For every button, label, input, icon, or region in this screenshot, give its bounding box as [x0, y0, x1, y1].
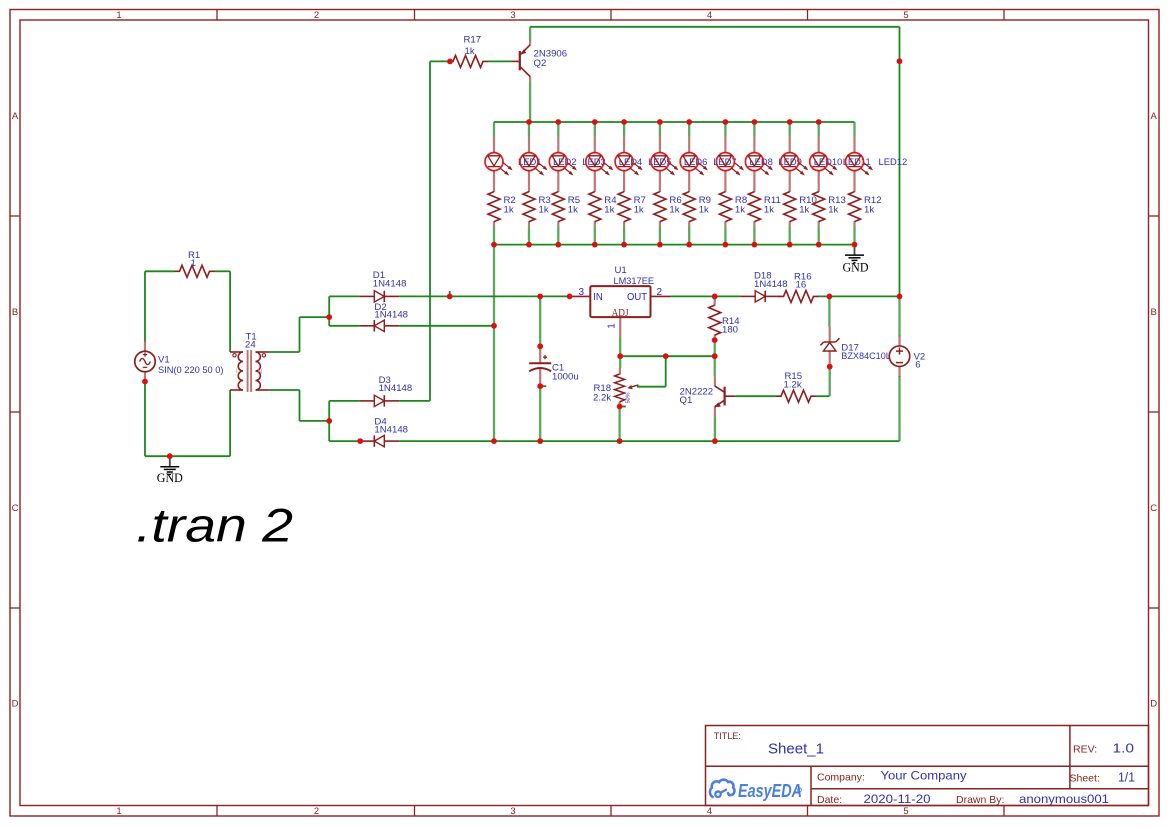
svg-text:16: 16	[796, 279, 807, 290]
svg-text:Your Company: Your Company	[881, 768, 968, 782]
svg-text:1k: 1k	[604, 205, 614, 216]
svg-text:180: 180	[722, 325, 738, 336]
svg-text:1: 1	[191, 258, 196, 269]
svg-text:B: B	[1151, 307, 1157, 318]
svg-text:1: 1	[116, 806, 121, 817]
svg-text:6: 6	[915, 359, 920, 370]
svg-text:OUT: OUT	[627, 291, 648, 303]
svg-text:GND: GND	[157, 471, 183, 485]
svg-text:ADJ: ADJ	[612, 307, 630, 319]
svg-text:B: B	[12, 307, 18, 318]
svg-text:1N4148: 1N4148	[374, 310, 408, 321]
svg-text:5: 5	[903, 806, 908, 817]
svg-text:LED12: LED12	[879, 156, 908, 167]
svg-text:GND: GND	[843, 261, 869, 275]
svg-text:V1: V1	[158, 354, 170, 365]
svg-text:1k: 1k	[735, 205, 745, 216]
svg-text:SIN(0 220 50 0): SIN(0 220 50 0)	[158, 365, 224, 376]
svg-text:1k: 1k	[465, 46, 475, 57]
svg-text:A: A	[1151, 111, 1158, 122]
svg-text:1000u: 1000u	[552, 372, 579, 383]
svg-text:LED2: LED2	[553, 156, 576, 167]
svg-text:1N4148: 1N4148	[379, 383, 413, 394]
svg-text:C: C	[12, 503, 19, 514]
svg-text:R17: R17	[464, 35, 482, 46]
svg-text:1: 1	[116, 10, 121, 21]
svg-text:2: 2	[314, 10, 319, 21]
svg-text:1k: 1k	[568, 205, 578, 216]
svg-text:N: N	[258, 369, 263, 376]
svg-text:2020-11-20: 2020-11-20	[864, 792, 931, 806]
svg-text:C: C	[1150, 503, 1157, 514]
svg-text:Sheet:: Sheet:	[1070, 773, 1100, 785]
svg-text:5: 5	[903, 10, 908, 21]
svg-text:LED6: LED6	[684, 156, 707, 167]
svg-text:1k: 1k	[799, 205, 809, 216]
svg-text:4: 4	[707, 10, 712, 21]
svg-text:50%: 50%	[626, 392, 632, 403]
svg-text:LED4: LED4	[619, 156, 642, 167]
svg-text:1N4148: 1N4148	[754, 279, 788, 290]
svg-text:Q1: Q1	[680, 395, 693, 406]
svg-text:1k: 1k	[634, 205, 644, 216]
svg-text:D: D	[12, 699, 19, 710]
svg-text:REV:: REV:	[1073, 743, 1097, 755]
svg-text:1N4148: 1N4148	[374, 424, 408, 435]
svg-text:1/1: 1/1	[1118, 771, 1135, 785]
svg-text:IN: IN	[593, 291, 603, 303]
svg-text:TITLE:: TITLE:	[714, 731, 741, 741]
svg-text:LM317EE: LM317EE	[614, 276, 655, 287]
svg-text:1k: 1k	[828, 205, 838, 216]
svg-text:LED8: LED8	[749, 156, 772, 167]
svg-text:1k: 1k	[539, 205, 549, 216]
svg-text:1k: 1k	[669, 205, 679, 216]
svg-text:1.2k: 1.2k	[784, 379, 802, 390]
svg-text:2: 2	[657, 287, 663, 298]
svg-text:BZX84C10L: BZX84C10L	[841, 351, 891, 362]
svg-text:U1: U1	[615, 265, 627, 276]
svg-text:.tran 2: .tran 2	[136, 499, 293, 552]
svg-text:1k: 1k	[504, 205, 514, 216]
svg-text:1k: 1k	[764, 205, 774, 216]
svg-text:1k: 1k	[699, 205, 709, 216]
svg-text:D: D	[1150, 699, 1157, 710]
svg-text:3: 3	[510, 806, 515, 817]
svg-text:Drawn By:: Drawn By:	[956, 794, 1004, 806]
svg-text:4: 4	[707, 806, 712, 817]
svg-text:EasyEDA: EasyEDA	[738, 781, 802, 801]
svg-text:Company:: Company:	[817, 771, 865, 783]
svg-text:Q2: Q2	[534, 58, 547, 69]
svg-text:1: 1	[607, 323, 618, 329]
svg-text:3: 3	[510, 10, 515, 21]
svg-text:1N4148: 1N4148	[373, 278, 407, 289]
svg-text:24: 24	[245, 340, 256, 351]
svg-text:1k: 1k	[864, 205, 874, 216]
svg-text:anonymous001: anonymous001	[1019, 792, 1109, 806]
svg-text:1.0: 1.0	[1113, 740, 1135, 755]
svg-text:Date:: Date:	[817, 794, 842, 806]
svg-text:Sheet_1: Sheet_1	[768, 740, 824, 757]
svg-text:2.2k: 2.2k	[593, 393, 611, 404]
svg-text:A: A	[12, 111, 19, 122]
svg-text:3: 3	[579, 287, 585, 298]
svg-text:2: 2	[314, 806, 319, 817]
